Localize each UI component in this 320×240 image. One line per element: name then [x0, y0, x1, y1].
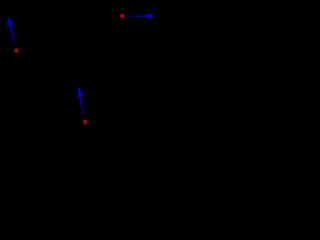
particle B velocity arrow shaft	[122, 15, 147, 17]
particle C velocity arrow head	[77, 86, 83, 97]
particle A body	[14, 48, 20, 54]
particle C body	[82, 119, 88, 125]
particle B body	[119, 13, 125, 19]
particle C trail	[84, 122, 86, 126]
particle A velocity arrow shaft	[10, 25, 17, 50]
particle A trail	[16, 51, 18, 56]
particle A velocity arrow head	[7, 16, 13, 26]
particle B velocity arrow head	[147, 13, 156, 18]
particle C velocity arrow shaft	[80, 97, 85, 122]
